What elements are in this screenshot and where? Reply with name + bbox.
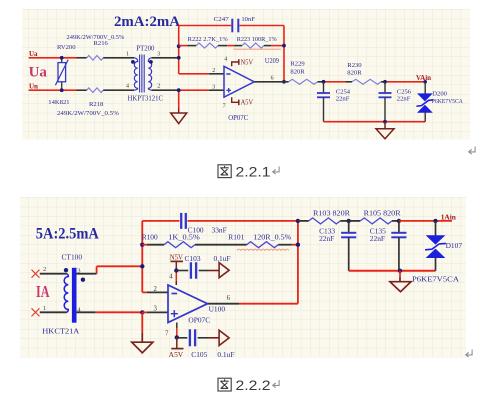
svg-text:2.2.1: 2.2.1 (236, 165, 271, 181)
svg-text:120R_0.5%: 120R_0.5% (253, 232, 291, 241)
svg-text:2: 2 (43, 266, 46, 273)
svg-text:2: 2 (154, 286, 158, 293)
svg-text:D200: D200 (432, 90, 447, 97)
svg-text:N5V: N5V (241, 59, 254, 66)
svg-text:U209: U209 (265, 58, 280, 65)
svg-text:OP07C: OP07C (188, 316, 210, 325)
svg-text:1: 1 (126, 52, 129, 58)
svg-text:2: 2 (212, 68, 215, 74)
svg-text:4: 4 (169, 273, 173, 280)
svg-text:5A:2.5mA: 5A:2.5mA (36, 226, 99, 243)
svg-text:1K_0.5%: 1K_0.5% (168, 232, 200, 241)
svg-text:Ua: Ua (29, 50, 38, 58)
svg-text:2: 2 (157, 84, 160, 90)
svg-text:10nF: 10nF (241, 16, 255, 23)
svg-text:R105 820R: R105 820R (364, 208, 401, 217)
svg-text:R100: R100 (142, 232, 158, 241)
svg-text:Ua: Ua (29, 64, 48, 80)
svg-text:P6KE7V5CA: P6KE7V5CA (412, 275, 460, 284)
svg-text:1: 1 (43, 305, 46, 312)
svg-text:6: 6 (271, 76, 274, 82)
svg-text:4: 4 (224, 57, 227, 63)
svg-text:IA: IA (36, 282, 50, 301)
svg-text:C247: C247 (214, 16, 230, 23)
svg-text:6: 6 (227, 295, 231, 302)
svg-text:249K/2W/700V_0.5%: 249K/2W/700V_0.5% (57, 110, 119, 117)
svg-text:R223 100R_1%: R223 100R_1% (237, 36, 278, 43)
svg-text:0.1uF: 0.1uF (214, 254, 231, 263)
svg-text:33nF: 33nF (212, 225, 227, 234)
svg-text:PT200: PT200 (136, 45, 155, 52)
svg-text:A5V: A5V (169, 351, 184, 359)
svg-text:A5V: A5V (241, 100, 254, 107)
svg-text:3: 3 (154, 305, 158, 312)
svg-text:3: 3 (157, 52, 160, 58)
svg-text:22nF: 22nF (319, 234, 334, 243)
svg-text:820R: 820R (290, 68, 305, 75)
svg-text:C103: C103 (185, 254, 201, 263)
svg-text:1Ain: 1Ain (441, 213, 456, 222)
svg-text:7: 7 (223, 104, 226, 110)
svg-text:R103 820R: R103 820R (313, 208, 350, 217)
svg-text:C105: C105 (191, 350, 207, 359)
svg-text:Un: Un (29, 83, 38, 91)
svg-text:VAin: VAin (416, 74, 431, 82)
svg-text:R218: R218 (89, 101, 104, 108)
svg-text:R216: R216 (94, 40, 109, 47)
svg-text:HKPT3121C: HKPT3121C (128, 96, 164, 103)
svg-text:7: 7 (165, 331, 169, 338)
svg-text:2mA:2mA: 2mA:2mA (114, 14, 180, 30)
svg-text:22nF: 22nF (397, 96, 411, 103)
svg-text:OP07C: OP07C (228, 115, 248, 122)
svg-text:R222 2.7K_1%: R222 2.7K_1% (188, 36, 229, 43)
svg-text:R229: R229 (290, 61, 305, 68)
svg-text:RV200: RV200 (57, 44, 76, 51)
svg-text:820R: 820R (347, 69, 362, 76)
svg-text:N5V: N5V (170, 254, 184, 262)
svg-text:C256: C256 (397, 88, 412, 95)
svg-text:2.2.2: 2.2.2 (236, 378, 271, 394)
svg-text:D107: D107 (446, 241, 463, 250)
svg-text:HKCT21A: HKCT21A (42, 327, 80, 336)
svg-text:22nF: 22nF (336, 96, 350, 103)
svg-text:P6KE7V5CA: P6KE7V5CA (432, 98, 463, 105)
svg-text:CT100: CT100 (62, 252, 83, 261)
svg-text:U100: U100 (209, 304, 226, 313)
svg-text:R230: R230 (347, 62, 362, 69)
svg-text:22nF: 22nF (370, 234, 385, 243)
svg-text:14K821: 14K821 (48, 99, 69, 106)
svg-text:R101: R101 (228, 232, 244, 241)
svg-text:C254: C254 (336, 88, 351, 95)
svg-text:0.1uF: 0.1uF (217, 350, 234, 359)
svg-text:4: 4 (126, 84, 129, 90)
svg-text:3: 3 (212, 85, 215, 91)
